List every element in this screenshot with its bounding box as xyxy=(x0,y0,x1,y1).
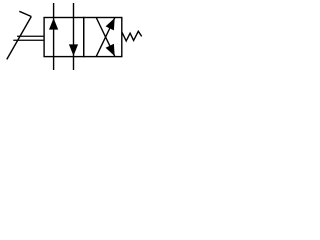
flow line up (left square) xyxy=(53,18,55,57)
arrowhead diagonal down-right xyxy=(106,44,115,56)
lever handle xyxy=(19,11,31,16)
lever link bottom line xyxy=(13,39,44,41)
arrowhead up xyxy=(49,18,58,30)
flow line down (left square) xyxy=(73,18,75,57)
arrowhead down xyxy=(69,44,78,56)
valve body right square xyxy=(84,18,122,57)
arrowhead diagonal up-right xyxy=(106,18,115,30)
crossed flow line B (right square) xyxy=(96,18,115,57)
crossed flow line A (right square) xyxy=(96,18,115,57)
spring return xyxy=(122,31,142,41)
port line bottom-right xyxy=(73,57,75,70)
lever shaft xyxy=(7,17,32,60)
port line top-left xyxy=(53,3,55,18)
4/2-way directional control valve with hand lever and spring return xyxy=(0,0,145,77)
port line bottom-left xyxy=(53,57,55,70)
valve body left square xyxy=(44,18,84,57)
lever link top line xyxy=(17,35,44,37)
port line top-right xyxy=(73,3,75,18)
